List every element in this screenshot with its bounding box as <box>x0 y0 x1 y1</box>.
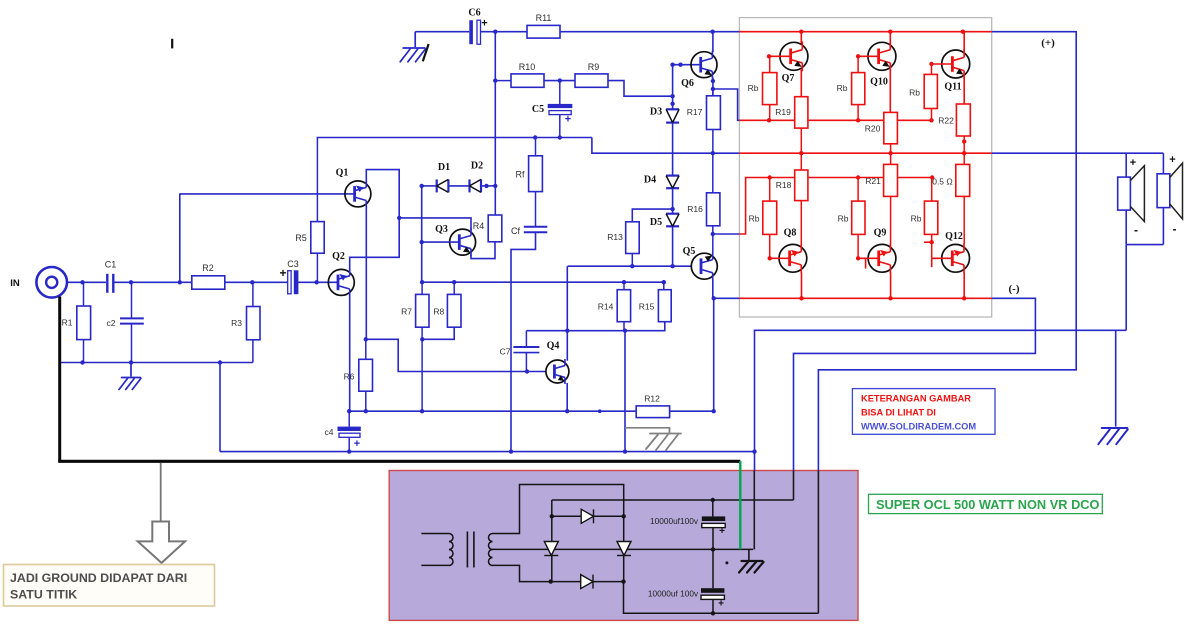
svg-text:D5: D5 <box>650 217 662 228</box>
capacitor 10000uf top <box>712 500 714 516</box>
svg-text:R8: R8 <box>433 307 444 317</box>
input connector IN <box>36 267 67 298</box>
node Q1 base tap <box>178 280 182 284</box>
wire R13 tap <box>632 209 672 222</box>
ground symbol under c2 <box>130 363 132 377</box>
diode D2 <box>470 179 482 192</box>
wire Q10 emitter <box>889 70 891 113</box>
speaker SP1 <box>1118 177 1131 210</box>
svg-text:D2: D2 <box>471 161 483 172</box>
node Q10 collector <box>888 30 892 34</box>
resistor R19 <box>795 97 808 128</box>
node R14-R15 bottom <box>623 329 627 333</box>
wire D5 to Q5 base <box>672 226 674 266</box>
emitter bottom rail <box>349 410 636 412</box>
node Q7 base <box>767 54 771 58</box>
svg-text:R19: R19 <box>775 107 791 117</box>
capacitor c4 <box>348 411 350 426</box>
wire Q6 base <box>673 64 701 66</box>
resistor R15 <box>663 282 665 290</box>
node Q11 base <box>929 62 933 66</box>
bridge node A vertical <box>551 516 553 581</box>
gray hollow arrow <box>138 522 185 563</box>
output stage frame <box>739 18 991 317</box>
resistor Rb Q12 <box>931 178 933 202</box>
wire Q5 base net horizontal <box>568 265 692 267</box>
resistor Rb Q11 <box>931 64 933 74</box>
wire Q1 base tap vertical <box>179 193 181 282</box>
svg-text:R10: R10 <box>519 62 536 72</box>
wire D3 to D4 <box>672 123 674 176</box>
transistor Q9 <box>868 243 896 273</box>
svg-text:D3: D3 <box>650 107 662 118</box>
node c4 gnd <box>347 449 351 453</box>
wire Q8 base <box>770 257 790 259</box>
svg-text:+: + <box>719 526 725 537</box>
svg-text:R17: R17 <box>687 107 703 117</box>
wire C3 to Q2 base <box>298 281 338 283</box>
resistor R5 <box>316 138 318 222</box>
svg-text:Rb: Rb <box>909 88 920 98</box>
gray arrow stem <box>160 463 162 522</box>
transistor Q7 <box>780 41 808 71</box>
wire R14 R15 bottoms <box>567 330 625 332</box>
svg-text:BISA DI LIHAT DI: BISA DI LIHAT DI <box>861 408 936 418</box>
wire Q11 emitter <box>963 77 965 104</box>
psu speck <box>725 561 728 564</box>
resistor R8 <box>453 282 455 294</box>
capacitor Cf <box>535 192 537 227</box>
wire Q11 base <box>932 63 953 65</box>
capacitor c2 <box>131 282 133 318</box>
node Q9 base <box>856 256 860 260</box>
negative rail red <box>739 297 991 299</box>
wire Q7 base <box>769 55 790 57</box>
ground return line <box>755 330 1127 451</box>
resistor R7 <box>421 282 423 294</box>
wire top rail from ground to C6 <box>415 31 469 33</box>
svg-text:Q2: Q2 <box>332 251 345 262</box>
wire Q4 collector up <box>566 266 568 361</box>
svg-text:+: + <box>279 266 286 280</box>
svg-text:Q8: Q8 <box>784 228 797 239</box>
svg-text:+: + <box>354 438 360 450</box>
node C5 top <box>558 78 562 82</box>
capacitor C1 <box>106 274 108 293</box>
diode D3 <box>666 109 679 122</box>
svg-text:Rb: Rb <box>911 214 922 224</box>
node Q3 base <box>420 240 424 244</box>
wire C1 to R2 <box>115 281 192 283</box>
svg-text:10000uf 100v: 10000uf 100v <box>648 589 699 599</box>
bias rail upper <box>422 281 664 283</box>
wire Q1 base horizontal <box>180 193 355 195</box>
wire R12 node up to Q5 collector <box>713 298 715 411</box>
secondary centre tap rail <box>493 548 754 550</box>
transistor Q3 <box>450 228 476 256</box>
stub Q12 <box>931 258 933 267</box>
svg-text:R1: R1 <box>62 318 73 328</box>
node Q5 collector <box>712 296 716 300</box>
node C1-c2 <box>129 280 133 284</box>
node C7 bottom on Q4 base wire <box>525 369 529 373</box>
svg-text:R12: R12 <box>644 394 660 404</box>
node R19 output <box>799 151 803 155</box>
node Q6 base2 <box>678 62 682 66</box>
transistor Q2 <box>328 268 354 296</box>
svg-text:(+): (+) <box>1041 37 1055 49</box>
capacitor 10000uf bottom <box>712 549 714 588</box>
svg-text:Q5: Q5 <box>683 246 696 257</box>
wire Q3 base <box>422 241 460 243</box>
transformer primary lead top <box>421 533 449 535</box>
output mid rail red <box>739 152 991 154</box>
wire Q6 base chain vertical <box>672 65 674 110</box>
resistor R4 <box>488 215 502 242</box>
node R8 top <box>452 280 456 284</box>
node Q2 emitter rail <box>347 409 351 413</box>
transistor Q5 <box>691 252 717 280</box>
capacitor C6 <box>469 20 473 44</box>
positive rail red <box>739 31 991 33</box>
svg-text:Q3: Q3 <box>435 224 448 235</box>
svg-text:D4: D4 <box>644 175 656 186</box>
svg-text:+: + <box>565 114 571 126</box>
diode D1 <box>422 185 437 187</box>
wire C7 top to Q4 collector <box>526 330 567 332</box>
svg-text:C1: C1 <box>105 260 117 270</box>
capacitor C3 <box>288 271 291 294</box>
svg-text:R14: R14 <box>598 302 614 312</box>
speaker SP1 feed <box>1125 153 1127 177</box>
node bridge B low <box>621 579 625 583</box>
negative dc rail <box>552 499 794 501</box>
node R6 top <box>364 337 368 341</box>
svg-text:-: - <box>1173 222 1177 236</box>
node Rb1 bias <box>767 118 771 122</box>
wire D1 to D2 <box>448 185 469 187</box>
svg-text:Rb: Rb <box>749 214 760 224</box>
resistor R18 <box>800 153 802 170</box>
signal ground line <box>220 451 755 453</box>
svg-text:R6: R6 <box>344 372 355 382</box>
wire Q10 collector <box>889 32 891 44</box>
right ground drop <box>1115 330 1117 426</box>
svg-text:-: - <box>1134 223 1138 237</box>
wire Q6 collector <box>712 32 714 52</box>
wire Q5 collector to box <box>714 297 740 299</box>
node Q12 neg <box>962 296 966 300</box>
node R7 top <box>420 280 424 284</box>
resistor Rb Q9 <box>857 178 859 202</box>
node bootstrap-R10 <box>493 78 497 82</box>
bridge right diode <box>617 542 631 556</box>
node R14 top <box>622 280 626 284</box>
svg-text:R22: R22 <box>938 116 954 126</box>
resistor R2 <box>192 276 225 289</box>
resistor R12 <box>636 406 669 418</box>
resistor R10 <box>495 80 511 82</box>
node c2-gnd <box>129 360 133 364</box>
wire R10 to R9 <box>544 80 575 82</box>
resistor R14 <box>623 282 625 290</box>
wire Q9 base <box>858 257 879 259</box>
node Rb lower 2 <box>856 175 860 179</box>
resistor Rb Q7 <box>769 56 771 72</box>
stub Q12 tick <box>924 241 932 243</box>
resistor R22 <box>956 104 970 136</box>
resistor R21 <box>890 153 892 164</box>
wire output rail elbow <box>592 138 740 154</box>
svg-text:R18: R18 <box>776 180 792 190</box>
node R20 output <box>888 151 892 155</box>
svg-text:Q6: Q6 <box>681 78 694 89</box>
positive dc rail <box>624 582 819 614</box>
speaker return riser <box>1125 245 1127 331</box>
wire R12 right <box>670 410 714 412</box>
super ocl box <box>869 494 1103 513</box>
svg-text:c4: c4 <box>325 427 334 437</box>
node C6-bootstrap <box>493 30 497 34</box>
node cap1 bottom <box>711 547 715 551</box>
amp zero volt riser <box>754 452 756 471</box>
wire Q2 emitter down <box>349 295 351 411</box>
gray ground symbol <box>646 428 681 450</box>
svg-text:WWW.SOLDIRADEM.COM: WWW.SOLDIRADEM.COM <box>861 422 976 432</box>
node bootstrap-D2 <box>493 184 497 188</box>
node Q9 neg <box>888 296 892 300</box>
node Q4 emitter rail <box>565 409 569 413</box>
svg-text:Q12: Q12 <box>945 231 963 242</box>
wire R15 bottom join <box>625 322 665 331</box>
chassis wire from input jack <box>58 297 61 462</box>
bias rail red lower <box>739 178 932 235</box>
transistor Q12 <box>942 243 970 273</box>
node R12 right <box>712 409 716 413</box>
node bridge A low <box>549 579 553 583</box>
svg-text:SUPER OCL 500 WATT NON VR DCO: SUPER OCL 500 WATT NON VR DCO <box>876 497 1100 512</box>
node Rb3 bias <box>929 118 933 122</box>
note box jadi ground <box>4 565 215 607</box>
resistor R13 <box>626 222 640 254</box>
resistor Rf <box>535 138 537 156</box>
node Rb lower 1 <box>768 175 772 179</box>
bridge left diode <box>544 542 558 556</box>
svg-text:R16: R16 <box>687 204 703 214</box>
node R2-R3 <box>250 280 254 284</box>
node R1-gnd <box>80 360 84 364</box>
wire Q6 emitter <box>712 78 714 96</box>
node Q4 collector C7 <box>565 329 569 333</box>
psu ground symbol <box>739 561 764 573</box>
wire R9 to Q6 base net <box>608 81 673 97</box>
node R13 bottom <box>630 264 634 268</box>
svg-text:+: + <box>718 599 724 610</box>
transformer core <box>466 532 468 568</box>
node Q1 emitter - Q3 collector <box>397 216 401 220</box>
wire R6 node to Q4 base <box>366 339 546 371</box>
negative rail to supply <box>794 298 1036 470</box>
svg-text:KETERANGAN GAMBAR: KETERANGAN GAMBAR <box>861 394 971 404</box>
svg-text:Cf: Cf <box>511 226 520 236</box>
transistor Q4 <box>546 359 569 384</box>
bridge top diode <box>552 515 624 517</box>
svg-text:JADI GROUND DIDAPAT DARI: JADI GROUND DIDAPAT DARI <box>10 571 187 585</box>
speaker SP2 return <box>1162 208 1164 245</box>
node R7-R8 join <box>420 337 424 341</box>
node D1 anode <box>420 184 424 188</box>
node C5 bottom <box>558 135 562 139</box>
node cap2 bottom <box>711 611 715 615</box>
node R17-R16 output <box>711 151 715 155</box>
wire input jack to C1 <box>67 281 106 283</box>
resistor R9 <box>575 74 608 87</box>
minus feed inside psu <box>793 471 795 501</box>
svg-text:C5: C5 <box>532 104 544 115</box>
wire gnd rail drop <box>219 363 221 452</box>
transformer primary lead bottom <box>421 564 449 566</box>
svg-text:Q10: Q10 <box>870 77 888 88</box>
node Q6 emitter b <box>711 87 715 91</box>
svg-text:Rf: Rf <box>516 170 525 180</box>
svg-text:+: + <box>1130 157 1136 169</box>
node Q8 neg <box>799 296 803 300</box>
positive rail to supply <box>818 32 1076 471</box>
svg-text:0.5 Ω: 0.5 Ω <box>932 177 953 187</box>
node Rf top <box>533 135 537 139</box>
wire D2 to bootstrap rail <box>481 185 495 187</box>
speaker SP2 <box>1157 174 1170 208</box>
node Q6 collector rail <box>710 30 714 34</box>
node Q6 base <box>670 62 674 66</box>
plus feed inside psu <box>817 471 819 614</box>
wire C6 to R11 <box>481 31 528 33</box>
positive top rail blue <box>560 31 739 33</box>
node Cf gnd <box>509 449 513 453</box>
svg-text:R9: R9 <box>588 62 600 72</box>
wire Q1 emitter loop to Q2 collector <box>350 170 400 270</box>
wire Q11 collector <box>963 32 965 52</box>
svg-text:R3: R3 <box>231 318 242 328</box>
svg-text:+: + <box>481 18 487 30</box>
wire D4 to D5 <box>672 188 674 214</box>
node Q12 base tap <box>930 240 934 244</box>
transistor Q8 <box>779 243 807 273</box>
node D3 anode <box>670 102 674 106</box>
svg-text:Q9: Q9 <box>874 228 887 239</box>
resistor Rb Q8 <box>769 178 771 202</box>
node R7 rail <box>420 409 424 413</box>
secondary top lead <box>493 485 624 534</box>
speaker bottom join <box>1126 244 1163 246</box>
keterangan box <box>852 389 995 435</box>
output line to speakers <box>992 152 1164 154</box>
node Rb lower 3 <box>930 175 934 179</box>
svg-text:R2: R2 <box>202 263 214 273</box>
resistor R11 <box>527 25 560 38</box>
wire Q3 collector elbow <box>399 218 471 230</box>
resistor R6 <box>365 339 367 359</box>
svg-text:Q11: Q11 <box>944 82 961 93</box>
svg-text:Q4: Q4 <box>547 341 560 352</box>
wire Q4 emitter down <box>566 383 568 411</box>
svg-text:IN: IN <box>10 278 20 289</box>
green ground wire <box>739 461 741 549</box>
resistor Rb Q10 <box>857 56 859 72</box>
transformer secondary coil <box>489 534 493 566</box>
bridge bottom diode <box>551 581 624 583</box>
speaker SP2 feed <box>1162 153 1164 174</box>
node R5-Q2 base <box>314 280 318 284</box>
resistor R1 <box>83 282 85 306</box>
node D4-D5 R13 tap <box>670 207 674 211</box>
node R9 net <box>670 94 674 98</box>
transistor Q11 <box>942 49 970 79</box>
transistor Q1 <box>345 180 371 208</box>
node Rb2 bias <box>856 118 860 122</box>
node small rail <box>598 409 602 413</box>
green speck <box>160 523 163 526</box>
diode D5 <box>666 214 679 227</box>
svg-text:(-): (-) <box>1009 283 1020 295</box>
bridge node B vertical <box>623 516 625 581</box>
svg-text:R11: R11 <box>536 13 552 23</box>
svg-text:R4: R4 <box>473 221 485 231</box>
wire Q7 collector <box>800 32 802 44</box>
svg-text:R15: R15 <box>639 302 655 312</box>
wire Q8 emitter down <box>801 273 803 299</box>
secondary bottom lead <box>493 565 551 581</box>
feedback rail to output <box>317 137 592 139</box>
node gnd-drop <box>218 360 222 364</box>
node bridge A <box>550 514 554 518</box>
wire Q3 emitter to R4 <box>471 242 495 259</box>
resistor R20 <box>884 112 898 143</box>
wire Q9 emitter down <box>890 273 892 299</box>
psu ground stub <box>748 549 750 560</box>
node D2 cathode <box>484 184 488 188</box>
right ground symbol <box>1098 428 1127 444</box>
svg-text:R20: R20 <box>865 124 881 134</box>
svg-text:Rb: Rb <box>748 83 759 93</box>
capacitor C5 <box>559 81 561 104</box>
ground symbol top left <box>414 32 416 47</box>
svg-text:Rb: Rb <box>837 83 848 93</box>
node R22 bottom <box>962 139 966 143</box>
node R14 gnd <box>623 449 627 453</box>
svg-text:SATU TITIK: SATU TITIK <box>10 588 77 602</box>
wire Q12 base <box>932 257 953 259</box>
input ground rail <box>60 362 253 364</box>
transformer primary coil <box>449 534 453 566</box>
svg-text:10000uf100v: 10000uf100v <box>650 516 699 526</box>
svg-text:R21: R21 <box>865 176 881 186</box>
wire Cf to ground line <box>511 232 536 451</box>
wire R8 bottom join <box>422 327 454 339</box>
node Q8 base <box>768 256 772 260</box>
svg-text:C7: C7 <box>500 347 511 357</box>
diode D4 <box>666 176 679 189</box>
wire Q5 collector down <box>712 279 714 298</box>
wire R16 bottom to red box <box>713 233 740 235</box>
speaker SP1 return <box>1125 210 1127 245</box>
node R22 output <box>962 151 966 155</box>
node psu gnd riser <box>752 449 756 453</box>
node R15 top <box>662 280 666 284</box>
resistor R17 <box>712 89 714 96</box>
capacitor C7 <box>525 331 527 347</box>
wire Q1 collector down <box>365 206 367 339</box>
